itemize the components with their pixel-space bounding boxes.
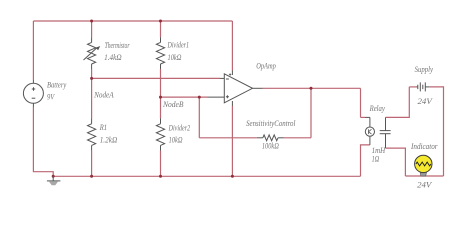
svg-text:OpAmp: OpAmp <box>256 61 276 70</box>
svg-text:10kΩ: 10kΩ <box>169 135 183 144</box>
svg-text:Battery: Battery <box>47 81 67 90</box>
svg-text:1.4kΩ: 1.4kΩ <box>104 53 122 62</box>
svg-text:NodeA: NodeA <box>93 91 113 100</box>
svg-text:NodeB: NodeB <box>162 100 184 109</box>
svg-text:24V: 24V <box>417 181 432 190</box>
svg-text:1.2kΩ: 1.2kΩ <box>100 135 118 144</box>
svg-text:Relay: Relay <box>369 104 386 113</box>
svg-text:R1: R1 <box>99 123 107 132</box>
svg-text:24V: 24V <box>418 97 434 106</box>
svg-text:SensitivityControl: SensitivityControl <box>246 119 296 128</box>
svg-text:Supply: Supply <box>415 65 434 74</box>
svg-text:100kΩ: 100kΩ <box>262 141 279 150</box>
svg-text:9V: 9V <box>47 93 55 102</box>
svg-text:1Ω: 1Ω <box>372 154 380 163</box>
svg-text:Divider2: Divider2 <box>168 123 190 132</box>
svg-text:Thermistor: Thermistor <box>105 41 131 50</box>
svg-text:Divider1: Divider1 <box>167 41 189 50</box>
svg-text:10kΩ: 10kΩ <box>168 53 182 62</box>
svg-text:Indicator: Indicator <box>410 142 438 151</box>
